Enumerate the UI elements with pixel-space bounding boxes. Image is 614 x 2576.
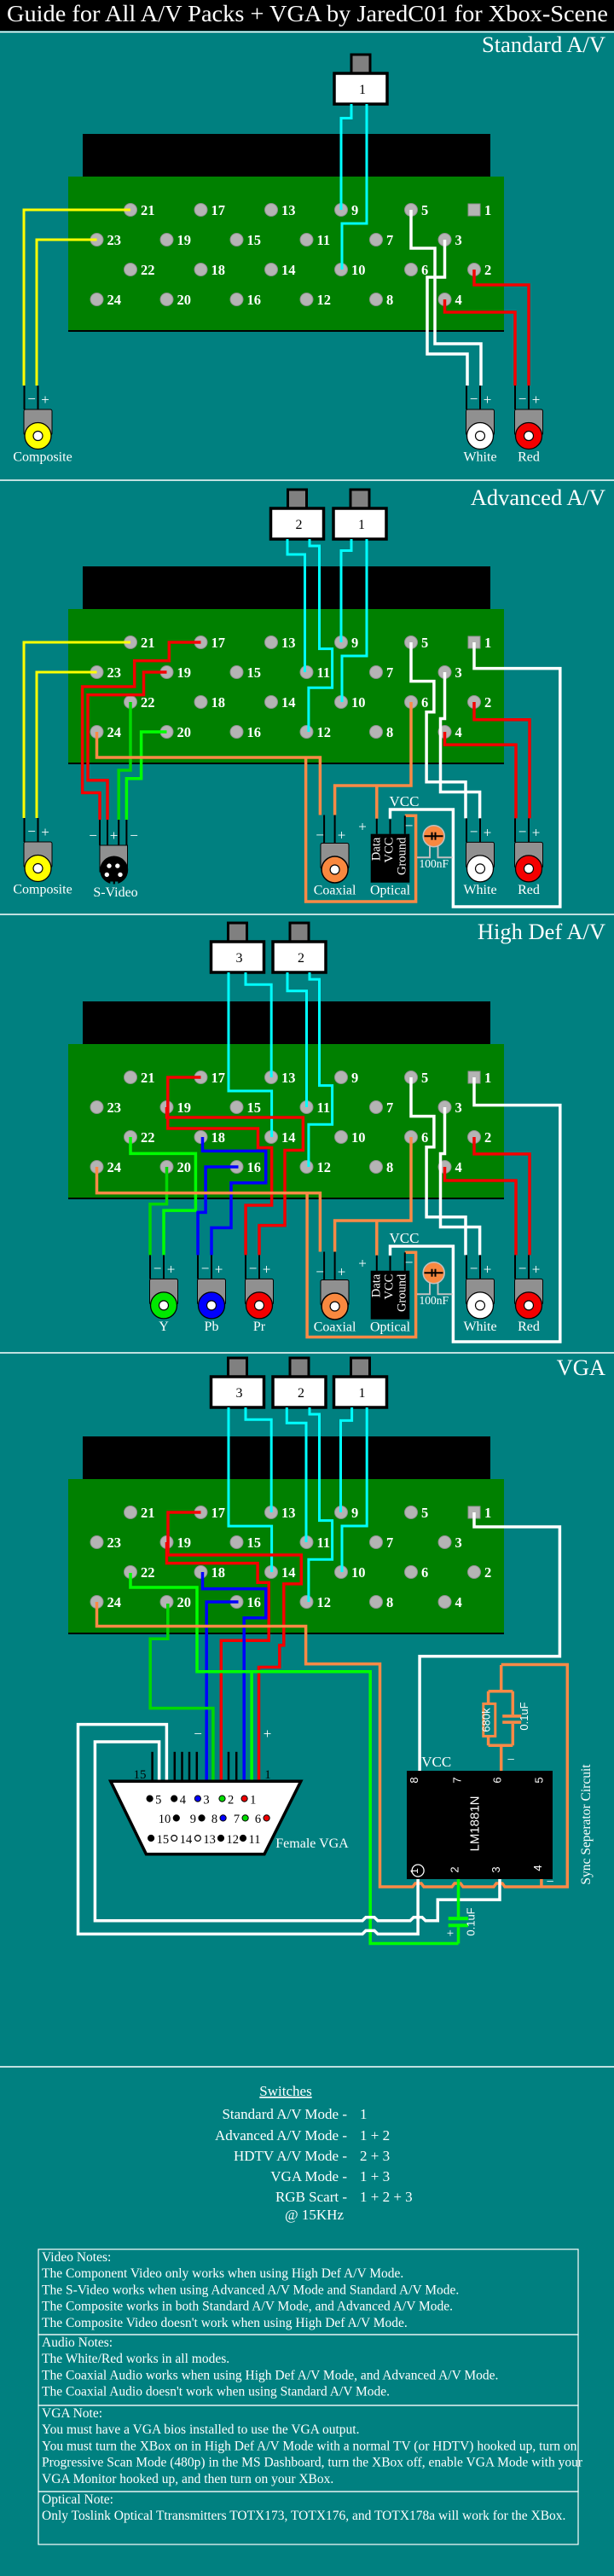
svg-text:1: 1 [358, 518, 365, 532]
wire cyan SW1 to pin 9 [341, 1407, 352, 1512]
svg-text:1: 1 [250, 1793, 256, 1807]
connector White RCA: solder stubs [466, 1255, 467, 1279]
svg-text:16: 16 [247, 1594, 262, 1610]
svg-text:−: − [153, 1260, 162, 1276]
svg-text:10: 10 [159, 1813, 171, 1826]
svg-text:1 + 2: 1 + 2 [360, 2127, 390, 2144]
connector Coaxial: body [321, 844, 349, 869]
switch SW2 [288, 490, 307, 511]
svg-text:Red: Red [518, 883, 540, 897]
pin 11 [300, 1536, 313, 1549]
svg-text:The S-Video works when using A: The S-Video works when using Advanced A/… [42, 2283, 459, 2297]
capacitor C-100nF: body [423, 1262, 444, 1284]
svg-text:4: 4 [455, 1159, 462, 1175]
svg-text:22: 22 [141, 262, 155, 278]
svg-text:12: 12 [317, 724, 332, 740]
wire orange 0.1uF bottom lead [512, 1724, 515, 1745]
connector Y RCA: solder stubs [149, 1255, 151, 1279]
pin 7 [370, 1536, 383, 1549]
svg-text:7: 7 [386, 232, 393, 248]
pin 14 [265, 1131, 278, 1144]
wire cyan SW1 to pin 9 [341, 539, 351, 642]
svg-text:Switches: Switches [259, 2083, 311, 2099]
connector Pb RCA: jack [199, 1292, 225, 1319]
svg-text:5: 5 [421, 635, 428, 651]
wire cyan SW3 to pin 13 [246, 1407, 271, 1512]
wire red pin 19 to VGA pin 6 [167, 1542, 269, 1780]
pin 18 [194, 1566, 207, 1579]
pin 20 [160, 293, 173, 306]
pin 11 [300, 234, 313, 247]
svg-text:+: + [532, 824, 541, 840]
connector Red RCA: jack [516, 423, 542, 450]
connector Red RCA: jack [516, 856, 542, 882]
svg-text:+: + [358, 819, 367, 835]
resistor R1 680k body [484, 1703, 495, 1736]
svg-text:The Coaxial Audio doesn't work: The Coaxial Audio doesn't work when usin… [42, 2385, 390, 2399]
pin 8 [370, 293, 383, 306]
optical transmitter U-opt: stubs [376, 1256, 378, 1271]
pin 15 [230, 234, 243, 247]
svg-text:19: 19 [177, 1535, 192, 1551]
switch SW2 [290, 923, 309, 944]
op-amp U1 LM1881N body [407, 1771, 553, 1879]
section divider [0, 479, 614, 481]
wire cyan SW3 to pin 14 [229, 972, 272, 1137]
svg-text:17: 17 [211, 1505, 226, 1521]
svg-text:4: 4 [455, 724, 462, 740]
svg-text:11: 11 [249, 1833, 261, 1847]
svg-text:9: 9 [190, 1813, 196, 1826]
svg-text:VGA Mode -: VGA Mode - [270, 2168, 347, 2184]
wire blue pin 18 to VGA pin 3 [203, 1572, 266, 1780]
svg-text:Ground: Ground [396, 1273, 409, 1312]
pin 9 [335, 204, 348, 217]
pin 16 [230, 726, 243, 739]
connector Red RCA: body [515, 842, 543, 867]
svg-text:VCC: VCC [390, 793, 420, 809]
svg-text:VCC: VCC [390, 1230, 420, 1246]
pin 22 [125, 1566, 137, 1579]
svg-text:1: 1 [360, 2106, 368, 2122]
connector White RCA: solder stubs [466, 818, 467, 842]
connector Composite RCA: solder stubs [24, 818, 26, 842]
svg-text:1: 1 [359, 1386, 366, 1401]
svg-text:Only Toslink Optical Ttransmit: Only Toslink Optical Ttransmitters TOTX1… [42, 2509, 565, 2523]
svg-text:10: 10 [351, 694, 366, 711]
svg-text:8: 8 [386, 724, 393, 740]
connector S-Video: solder stubs [99, 820, 101, 845]
svg-text:Standard A/V Mode -: Standard A/V Mode - [222, 2106, 347, 2122]
J1 pins 5-1 [147, 1796, 153, 1801]
pin 6 [405, 264, 418, 276]
svg-text:2: 2 [484, 1564, 491, 1581]
svg-text:100nF: 100nF [419, 1294, 449, 1307]
svg-text:+: + [41, 392, 49, 408]
wire orange pin 24 ground ring [97, 1602, 568, 1887]
svg-text:−: − [405, 1255, 414, 1271]
svg-text:14: 14 [180, 1833, 193, 1847]
pin 23 [90, 1536, 103, 1549]
svg-text:2: 2 [484, 694, 491, 711]
pin 10 [335, 264, 348, 276]
pin 2 [468, 1131, 481, 1144]
wire green pin 22 to S-Video [119, 702, 130, 820]
connector White RCA: jack [467, 423, 494, 450]
pin 12 [300, 293, 313, 306]
svg-text:Standard A/V: Standard A/V [482, 32, 605, 57]
pin 15 [230, 666, 243, 679]
pin 8 [370, 726, 383, 739]
connector White RCA: body [466, 409, 495, 435]
pin 4 [438, 726, 451, 739]
svg-text:8: 8 [211, 1813, 217, 1826]
connector White RCA: solder stubs [466, 386, 467, 409]
svg-text:14: 14 [281, 1129, 296, 1146]
svg-text:+: + [532, 392, 541, 408]
wire cyan SW3 to pin 14 [229, 1407, 272, 1572]
wire red pin 4 to Red - [445, 1167, 517, 1255]
svg-text:Composite: Composite [13, 883, 72, 897]
wire green pin 22 sync-on-green to LM1881 [130, 1573, 459, 1944]
svg-text:22: 22 [141, 1564, 155, 1581]
svg-text:−: − [249, 1260, 258, 1276]
svg-text:6: 6 [255, 1813, 261, 1826]
connector Coaxial: body [321, 1280, 349, 1306]
svg-text:12: 12 [317, 292, 332, 308]
svg-text:The Composite works in both St: The Composite works in both Standard A/V… [42, 2300, 453, 2314]
pin 17 [194, 1506, 207, 1519]
svg-text:−: − [27, 823, 36, 839]
pin 13 [265, 636, 278, 649]
pin 22 [125, 696, 137, 709]
svg-text:1: 1 [264, 1768, 271, 1782]
svg-text:9: 9 [351, 1070, 358, 1086]
svg-text:Guide for All A/V Packs + VGA: Guide for All A/V Packs + VGA by JaredC0… [7, 1, 608, 26]
pin 19 [160, 666, 173, 679]
wire red pin 17 to S-Video [83, 642, 201, 820]
wire white pin 1 VCC to LM1881 pin 8 [420, 1512, 559, 1771]
pin 1 [468, 1071, 480, 1083]
svg-text:2: 2 [449, 1866, 461, 1872]
wire orange pin 6 to Coaxial + [335, 1137, 411, 1252]
svg-text:1: 1 [359, 83, 366, 97]
AV connector shell [83, 566, 490, 610]
svg-text:Sync Seperator Circuit: Sync Seperator Circuit [579, 1764, 594, 1885]
svg-text:1: 1 [484, 202, 491, 218]
svg-text:19: 19 [177, 1099, 192, 1116]
wire yellow pin 21 to Composite - [24, 210, 130, 386]
svg-text:21: 21 [141, 635, 155, 651]
note box Optical Note: [38, 2492, 578, 2544]
svg-text:15: 15 [134, 1768, 147, 1782]
wire orange ground loop to Optical ground [306, 757, 416, 902]
AV connector shell [83, 1436, 490, 1480]
wire orange Rset bottom rail [489, 1744, 513, 1748]
connector Red RCA: solder stubs [514, 386, 516, 409]
svg-text:1 + 2 + 3: 1 + 2 + 3 [360, 2189, 413, 2205]
svg-text:21: 21 [141, 1070, 155, 1086]
svg-text:+: + [263, 1261, 271, 1277]
pin 2 [468, 264, 481, 276]
svg-text:7: 7 [386, 1099, 393, 1116]
switch SW1 [351, 1358, 370, 1379]
pin 6 [405, 1131, 418, 1144]
pin 14 [265, 696, 278, 709]
pin 14 [265, 264, 278, 276]
pin 5 [405, 1071, 418, 1084]
wire red pin 4 to Red - [445, 732, 517, 818]
svg-text:Data: Data [370, 1273, 384, 1297]
svg-text:+: + [484, 824, 492, 840]
capacitor C-100nF: body [423, 826, 444, 847]
svg-text:7: 7 [386, 664, 393, 681]
wire red pin 19 to Pr + [167, 1107, 304, 1255]
svg-text:3: 3 [455, 232, 462, 248]
svg-text:24: 24 [107, 724, 122, 740]
svg-text:−: − [518, 391, 527, 407]
pin 1 [468, 204, 480, 216]
pin 21 [125, 1506, 137, 1519]
connector White RCA: jack [467, 856, 494, 882]
svg-text:12: 12 [317, 1594, 332, 1610]
svg-text:24: 24 [107, 1594, 122, 1610]
svg-text:+: + [167, 1261, 176, 1277]
wire blue pin 16 to VGA pin 8 [206, 1602, 238, 1780]
svg-text:−: − [89, 827, 97, 844]
wire orange LM1881 pin 4 ground stub [540, 1879, 543, 1887]
svg-text:VCC: VCC [421, 1754, 451, 1770]
switch SW1 [350, 490, 369, 511]
pin 16 [230, 1161, 243, 1174]
pin 23 [90, 234, 103, 247]
pin 3 [438, 1536, 451, 1549]
J1 pins 10-6 [173, 1815, 179, 1821]
pin 12 [300, 726, 313, 739]
wire red pin 17 to Pr - [168, 1077, 272, 1255]
wire white pin 5 to White - [411, 642, 466, 818]
svg-text:4: 4 [531, 1865, 544, 1871]
connector Coaxial: solder stubs [323, 815, 325, 844]
svg-text:12: 12 [317, 1159, 332, 1175]
wire white pin 3 to White + [441, 1107, 480, 1255]
pin 4 [438, 1596, 451, 1609]
connector Composite RCA: body [24, 409, 52, 435]
note box Audio Notes: [38, 2335, 578, 2405]
svg-text:23: 23 [107, 664, 122, 681]
section divider [0, 2066, 614, 2068]
svg-text:4: 4 [180, 1793, 187, 1807]
VGA ground stubs [151, 1752, 153, 1781]
connector S-Video: body [100, 845, 128, 872]
svg-text:13: 13 [281, 202, 296, 218]
svg-text:HDTV A/V Mode -: HDTV A/V Mode - [234, 2148, 347, 2164]
pin 7 [370, 1101, 383, 1114]
svg-text:The Composite Video doesn't wo: The Composite Video doesn't work when us… [42, 2316, 408, 2330]
svg-text:Optical: Optical [370, 1320, 411, 1335]
svg-text:S-Video: S-Video [93, 885, 137, 900]
svg-text:0.1uF: 0.1uF [518, 1702, 530, 1730]
switch SW2 [290, 1358, 309, 1379]
svg-text:13: 13 [281, 1070, 296, 1086]
svg-text:−: − [518, 1260, 527, 1276]
AV connector PCB [68, 177, 504, 332]
svg-text:6: 6 [421, 262, 428, 278]
svg-text:6: 6 [421, 694, 428, 711]
pin 17 [194, 1071, 207, 1084]
svg-text:−: − [130, 827, 138, 844]
svg-text:+: + [447, 1927, 454, 1941]
svg-text:11: 11 [317, 232, 331, 248]
connector White RCA: jack [467, 1292, 494, 1319]
svg-text:10: 10 [351, 1129, 366, 1146]
wire red pin 2 to Red + [474, 270, 529, 386]
wire cyan SW3 to pin 13 [246, 972, 271, 1077]
svg-text:Coaxial: Coaxial [314, 1320, 356, 1335]
svg-text:0.1uF: 0.1uF [465, 1907, 478, 1935]
switch SW3 [229, 1358, 247, 1379]
svg-text:20: 20 [177, 724, 192, 740]
svg-text:2: 2 [298, 951, 304, 966]
pin 19 [160, 234, 173, 247]
connector Pb RCA: body [198, 1279, 226, 1304]
svg-text:VGA: VGA [557, 1355, 605, 1380]
wire red pin 19 to S-Video [88, 672, 167, 820]
pin 24 [90, 293, 103, 306]
svg-text:15: 15 [247, 232, 262, 248]
svg-text:3: 3 [236, 951, 243, 966]
svg-text:16: 16 [247, 724, 262, 740]
wire cyan SW2 to pin 11 [287, 972, 307, 1107]
capacitor C-100nF: legs [417, 844, 430, 857]
svg-text:6: 6 [491, 1777, 504, 1783]
svg-text:1: 1 [484, 1070, 491, 1086]
svg-text:6: 6 [421, 1564, 428, 1581]
pin 12 [300, 1596, 313, 1609]
svg-text:2: 2 [228, 1793, 234, 1807]
svg-text:16: 16 [247, 1159, 262, 1175]
svg-text:Red: Red [518, 1320, 540, 1334]
svg-text:16: 16 [247, 292, 262, 308]
pin 3 [438, 666, 451, 679]
svg-text:14: 14 [281, 262, 296, 278]
pin 5 [405, 1506, 418, 1519]
AV connector PCB [68, 1479, 504, 1634]
wire white pin 3 to White + [441, 672, 480, 818]
pin 18 [194, 696, 207, 709]
svg-text:15: 15 [157, 1833, 170, 1847]
svg-text:8: 8 [386, 292, 393, 308]
svg-text:21: 21 [141, 1505, 155, 1521]
svg-text:11: 11 [317, 1535, 331, 1551]
pin 9 [335, 1071, 348, 1084]
wire cyan SW1 to pin 10 [342, 104, 367, 270]
wire red pin 17 to VGA pin 1 [168, 1512, 301, 1780]
wire orange ground loop to Optical ground [307, 1193, 416, 1337]
svg-text:21: 21 [141, 202, 155, 218]
pin 1 [468, 636, 480, 648]
svg-text:+: + [338, 827, 346, 844]
svg-text:1: 1 [408, 1868, 420, 1874]
svg-text:−: − [518, 823, 527, 839]
pin 18 [194, 264, 207, 276]
svg-text:1: 1 [484, 1505, 491, 1521]
svg-text:5: 5 [421, 202, 428, 218]
svg-text:5: 5 [533, 1777, 546, 1783]
svg-text:−: − [201, 1260, 210, 1276]
connector S-Video: plug face [100, 856, 128, 885]
svg-text:13: 13 [203, 1833, 216, 1847]
connector Y RCA: jack [151, 1292, 177, 1319]
pin 3 [438, 1101, 451, 1114]
section divider [0, 914, 614, 915]
wire orange 680k top lead [487, 1691, 490, 1704]
AV connector PCB [68, 609, 504, 764]
svg-text:100nF: 100nF [419, 857, 449, 870]
svg-text:LM1881N: LM1881N [467, 1796, 482, 1851]
svg-text:+: + [484, 1261, 492, 1277]
svg-text:17: 17 [211, 1070, 226, 1086]
svg-text:18: 18 [211, 694, 226, 711]
pin 6 [405, 696, 418, 709]
svg-text:7: 7 [451, 1777, 464, 1783]
pin 24 [90, 1596, 103, 1609]
wire green pin 20 to Y - [150, 1167, 167, 1255]
AV connector shell [83, 1001, 490, 1045]
wire red pin 2 to Red + [474, 1137, 530, 1255]
pin 2 [468, 696, 481, 709]
svg-text:Advanced A/V Mode -: Advanced A/V Mode - [215, 2127, 347, 2144]
wire yellow pin 21 to Composite - [24, 642, 130, 818]
svg-text:The Component Video only works: The Component Video only works when usin… [42, 2266, 403, 2281]
pin 17 [194, 636, 207, 649]
svg-text:Advanced A/V: Advanced A/V [471, 484, 605, 510]
wire orange branch to Optical data [375, 1221, 379, 1256]
svg-text:+: + [484, 392, 492, 408]
svg-text:13: 13 [281, 1505, 296, 1521]
svg-text:680k: 680k [480, 1708, 493, 1732]
wire cyan SW1 to pin 10 [342, 1407, 367, 1572]
connector Red RCA: solder stubs [514, 818, 516, 842]
svg-text:7: 7 [234, 1813, 240, 1826]
svg-text:+: + [264, 1726, 272, 1742]
pin 8 [370, 1161, 383, 1174]
svg-text:Composite: Composite [13, 450, 72, 465]
svg-text:23: 23 [107, 232, 122, 248]
svg-text:You must turn the XBox on in H: You must turn the XBox on in High Def A/… [42, 2439, 577, 2453]
wire orange Rset junction [500, 1665, 503, 1691]
svg-text:3: 3 [455, 1535, 462, 1551]
connector Coaxial: jack [321, 856, 348, 883]
connector Coaxial: solder stubs [323, 1252, 325, 1280]
pin 24 [90, 726, 103, 739]
svg-text:−: − [405, 818, 414, 834]
wire cyan SW2 to pin 11 [287, 1407, 306, 1542]
wire green C2 bottom lead [457, 1927, 460, 1943]
capacitor C-100nF: legs [417, 1281, 430, 1294]
svg-text:+: + [338, 1264, 346, 1280]
svg-text:11: 11 [317, 664, 331, 681]
svg-text:Ground: Ground [396, 837, 409, 875]
svg-text:5: 5 [421, 1070, 428, 1086]
svg-text:24: 24 [107, 1159, 122, 1175]
svg-text:23: 23 [107, 1099, 122, 1116]
connector Y RCA: body [150, 1279, 178, 1304]
pin 13 [265, 1071, 278, 1084]
svg-text:−: − [194, 1726, 202, 1742]
pin 21 [125, 1071, 137, 1084]
wire green branch to VGA pin 2 [250, 1672, 253, 1780]
